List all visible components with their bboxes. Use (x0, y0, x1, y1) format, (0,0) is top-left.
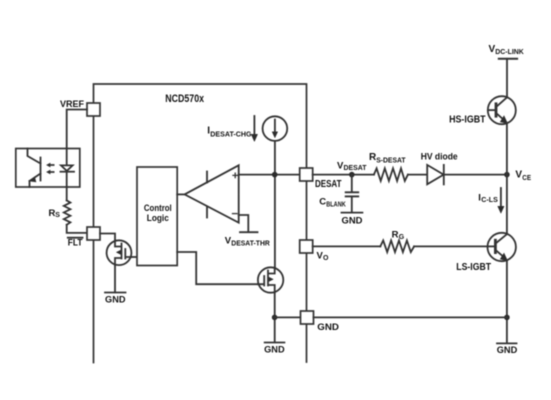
wire comparator minus input to VDESAT-THR (239, 215, 249, 232)
wire HS-IGBT emitter to LS-IGBT collector (506, 124, 508, 234)
svg-text:S-DESAT: S-DESAT (376, 155, 406, 164)
svg-text:C: C (319, 196, 326, 207)
op-amp U3 (DESAT comparator) (185, 165, 239, 222)
wire diode to VCE node (444, 174, 507, 176)
svg-text:GND: GND (105, 294, 126, 305)
node emitter-GND junction (504, 315, 510, 321)
transistor Q4 LS-IGBT (488, 233, 516, 261)
wire GND node to GND pad (275, 316, 301, 318)
wire comparator plus input to DESAT pad (239, 174, 300, 176)
svg-text:G: G (399, 234, 405, 241)
svg-text:R: R (392, 229, 399, 240)
ground (chip internal) (265, 342, 285, 344)
transistor Q3 HS-IGBT (488, 96, 516, 124)
ground (under Q1) (105, 292, 126, 294)
resistor Rs (64, 200, 71, 224)
pad DESAT (300, 168, 313, 181)
current source I1 IDESAT-CHG (263, 116, 288, 141)
svg-text:CE: CE (522, 173, 531, 182)
pad GND (301, 311, 314, 324)
svg-text:BLANK: BLANK (326, 201, 345, 208)
transistor Q2 (output driver mosfet) (258, 267, 283, 292)
power rail VDC-LINK bar (499, 58, 517, 60)
wire Q2 source to GND node (274, 293, 276, 343)
node GND junction (chip) (272, 315, 278, 321)
wire current source to Q2 drain (through DESAT node) (274, 141, 276, 267)
comparator plus mark (233, 173, 237, 177)
svg-text:C-LS: C-LS (481, 197, 498, 204)
pad VO (300, 240, 313, 253)
wire FLT to Q1 drain (100, 234, 115, 241)
optocoupler phototransistor (28, 149, 41, 188)
wire LED to Rs (66, 187, 68, 200)
wire VREF to optocoupler (67, 110, 87, 149)
wire control logic to Q2 gate (177, 252, 258, 284)
svg-text:Logic: Logic (147, 213, 169, 224)
resistor RG (380, 241, 414, 253)
svg-text:HV diode: HV diode (421, 151, 458, 162)
svg-text:FLT: FLT (68, 237, 83, 248)
wire Q1 source to ground (114, 265, 116, 292)
svg-text:GND: GND (317, 322, 339, 333)
svg-text:DC-LINK: DC-LINK (495, 49, 524, 56)
svg-text:GND: GND (264, 345, 285, 356)
svg-text:LS-IGBT: LS-IGBT (456, 262, 491, 273)
node VDESAT (349, 172, 355, 178)
wire VO pad to resistor RG (313, 245, 381, 247)
wire LS-IGBT emitter to ground (506, 261, 508, 343)
diode D1 HV diode (427, 165, 443, 184)
arrow IDESAT-CHG (253, 116, 255, 136)
pad VREF (87, 103, 100, 116)
resistor RS-DESAT (374, 168, 408, 181)
svg-text:GND: GND (497, 345, 518, 356)
svg-text:S: S (55, 212, 60, 219)
ground (bottom right) (497, 342, 517, 344)
wire control logic to comparator output (177, 193, 184, 195)
transistor Q1 (FLT mosfet) (107, 240, 132, 265)
optocoupler light arrows (50, 165, 54, 172)
wire Q1 gate to control logic (131, 256, 137, 258)
svg-text:HS-IGBT: HS-IGBT (449, 114, 486, 125)
optocoupler U2 box (16, 149, 80, 188)
wire RG to LS-IGBT gate (414, 245, 488, 247)
VDESAT-THR reference bar (240, 231, 258, 233)
wire resistor to diode (408, 174, 427, 176)
ground (CBLANK) (342, 212, 363, 214)
svg-text:DESAT-CHG: DESAT-CHG (210, 131, 252, 138)
svg-text:NCD570x: NCD570x (165, 93, 204, 105)
label FLT (68, 237, 83, 239)
svg-text:DESAT-THR: DESAT-THR (231, 241, 269, 248)
svg-text:DESAT: DESAT (315, 179, 342, 190)
svg-text:DESAT: DESAT (344, 165, 368, 172)
node VCE (504, 172, 510, 178)
comparator minus mark (233, 213, 238, 215)
comparator input tick top (206, 172, 208, 183)
optocoupler LED D2 (66, 149, 68, 166)
control logic U1 box (137, 167, 177, 266)
chip outline NCD570x (94, 84, 307, 363)
wire Rs to FLT pad (67, 225, 87, 233)
wire VDC-LINK to HS-IGBT collector (506, 59, 508, 97)
arrow IC-LS (500, 188, 502, 208)
wire DESAT pad to resistor RS-DESAT (313, 174, 374, 176)
svg-text:GND: GND (342, 215, 363, 226)
node DESAT junction (272, 172, 278, 178)
comparator input tick bottom (206, 207, 208, 218)
svg-text:VREF: VREF (60, 99, 84, 110)
pad FLT (87, 227, 100, 240)
wire GND pad to junction (314, 316, 507, 318)
capacitor CBLANK (351, 175, 353, 192)
svg-text:O: O (323, 255, 329, 262)
